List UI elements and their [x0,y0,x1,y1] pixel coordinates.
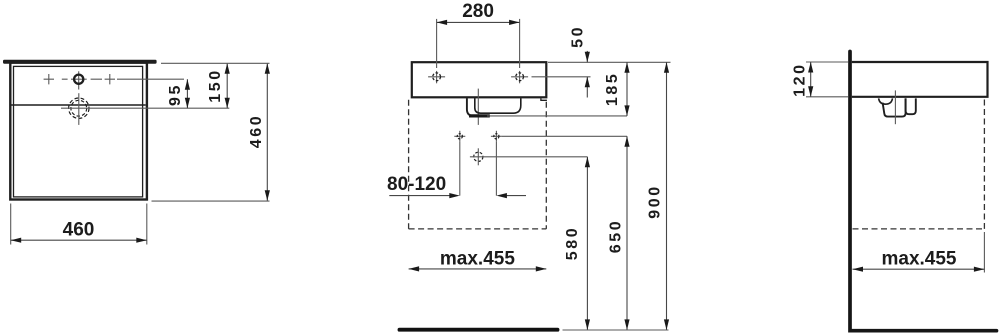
svg-text:185: 185 [604,72,621,107]
svg-text:580: 580 [564,226,581,261]
svg-text:280: 280 [462,1,494,22]
svg-text:150: 150 [207,68,224,103]
svg-text:900: 900 [647,184,664,219]
svg-text:95: 95 [167,83,184,106]
svg-text:460: 460 [63,220,95,241]
svg-text:460: 460 [248,114,265,149]
svg-text:650: 650 [608,219,625,254]
svg-text:80-120: 80-120 [387,174,446,195]
svg-text:50: 50 [570,25,587,48]
svg-text:max.455: max.455 [881,249,956,270]
svg-text:max.455: max.455 [440,249,515,270]
svg-text:120: 120 [792,62,809,97]
